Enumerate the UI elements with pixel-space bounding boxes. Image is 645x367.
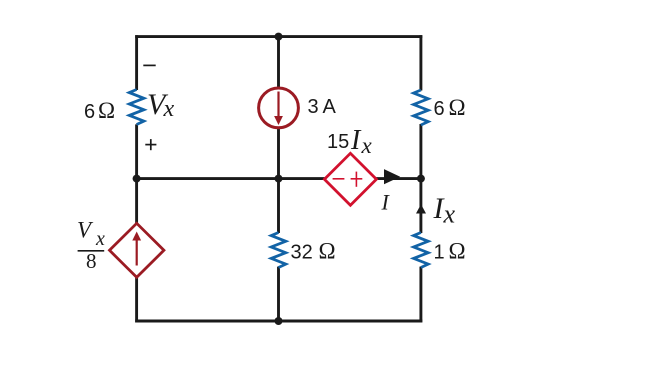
G1 arrow bbox=[132, 232, 141, 266]
dependent source E1 15Ix diamond bbox=[324, 153, 376, 205]
wire left mid bbox=[135, 124, 138, 224]
svg-text:Ω: Ω bbox=[449, 238, 466, 263]
label Vx minus polarity bbox=[143, 64, 155, 66]
wire right lower bbox=[419, 267, 422, 323]
label 6 ohm right bbox=[434, 95, 466, 120]
svg-text:x: x bbox=[163, 96, 175, 122]
label 32 ohm bbox=[291, 239, 336, 264]
wire top bbox=[135, 35, 422, 38]
label 6 ohm left bbox=[84, 98, 115, 123]
current source I1 arrow bbox=[274, 92, 283, 126]
svg-text:x: x bbox=[361, 133, 373, 158]
svg-text:15: 15 bbox=[327, 131, 349, 153]
label Vx bbox=[147, 88, 175, 122]
E1 plus sign bbox=[351, 172, 363, 187]
label Vx plus polarity bbox=[145, 139, 156, 150]
wire left lower bbox=[135, 276, 138, 322]
svg-text:x: x bbox=[443, 199, 456, 228]
current source I1 3A circle bbox=[259, 88, 299, 128]
dependent source G1 Vx/8 diamond bbox=[110, 223, 164, 277]
label 1 ohm bbox=[434, 238, 466, 263]
svg-text:1: 1 bbox=[434, 241, 445, 263]
svg-text:6: 6 bbox=[434, 98, 445, 120]
node D right-middle junction bbox=[417, 175, 425, 183]
svg-text:I: I bbox=[350, 125, 362, 156]
wire bottom bbox=[135, 320, 422, 323]
wire middle horizontal right segment bbox=[376, 177, 421, 180]
svg-text:6: 6 bbox=[84, 101, 95, 123]
svg-text:Ω: Ω bbox=[449, 95, 466, 120]
wire middle upper bbox=[277, 37, 280, 89]
current arrow I (black triangle on wire) bbox=[384, 169, 400, 184]
node C center junction bbox=[275, 175, 283, 183]
E1 minus sign bbox=[333, 178, 345, 180]
svg-text:Ω: Ω bbox=[98, 98, 115, 123]
svg-text:32: 32 bbox=[291, 242, 313, 264]
svg-text:8: 8 bbox=[86, 249, 97, 273]
current arrow Ix (black arrowhead on right wire) bbox=[416, 204, 426, 213]
node B left-middle junction bbox=[133, 175, 141, 183]
wire right mid bbox=[419, 124, 422, 233]
label Ix bbox=[433, 192, 456, 228]
wire middle lower bbox=[277, 267, 280, 323]
wire left upper bbox=[135, 35, 138, 90]
resistor R2 6ohm right bbox=[414, 90, 429, 125]
node A top-middle junction bbox=[275, 33, 283, 41]
svg-text:x: x bbox=[95, 228, 105, 250]
label 3 A bbox=[308, 96, 337, 118]
svg-text:Ω: Ω bbox=[319, 239, 336, 264]
resistor R1 6ohm left bbox=[129, 90, 144, 125]
resistor R3 32ohm bbox=[271, 233, 286, 268]
wire middle mid bbox=[277, 127, 280, 233]
label Vx/8 fraction bbox=[77, 218, 105, 274]
svg-text:A: A bbox=[323, 96, 337, 118]
label 15 Ix bbox=[327, 125, 373, 158]
wire right upper bbox=[419, 35, 422, 90]
wire middle horizontal left segment bbox=[137, 177, 326, 180]
resistor R4 1ohm bbox=[414, 233, 429, 268]
node E bottom-middle junction bbox=[275, 317, 283, 325]
svg-text:3: 3 bbox=[308, 96, 319, 118]
